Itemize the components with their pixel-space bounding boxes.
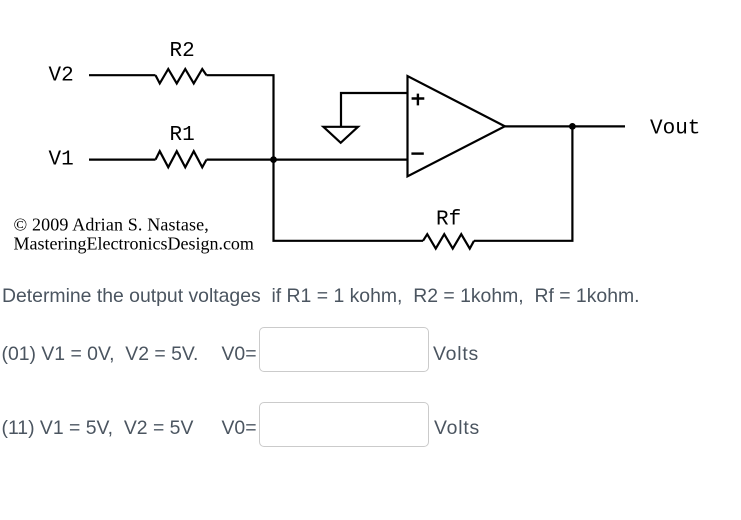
svg-text:R1: R1 (170, 124, 195, 147)
op-amp U1 (408, 76, 505, 176)
wire node to feedback bottom (274, 160, 424, 241)
wire output (505, 125, 625, 127)
answer row 1 input box (259, 327, 429, 372)
answer row 1 label (2, 345, 199, 364)
wire V2 input (89, 74, 156, 76)
op-amp minus pin marker (411, 152, 423, 154)
answer row 2 label (2, 419, 194, 438)
wire V1 input (89, 159, 156, 161)
svg-text:V1: V1 (49, 148, 74, 171)
wire non-inverting input to ground (341, 93, 408, 127)
output node junction dot (569, 123, 576, 130)
answer row 2 V0= (222, 419, 257, 438)
answer row 2 Volts (434, 419, 480, 438)
svg-text:MasteringElectronicsDesign.com: MasteringElectronicsDesign.com (14, 234, 254, 254)
svg-text:V2: V2 (49, 65, 74, 88)
svg-text:© 2009 Adrian S. Nastase,: © 2009 Adrian S. Nastase, (14, 215, 209, 235)
resistor R1 (156, 151, 207, 167)
question text (2, 287, 640, 306)
op-amp plus pin marker (412, 94, 425, 106)
wire R2 to node column (207, 75, 274, 159)
node A junction dot (270, 156, 277, 163)
ground (323, 127, 358, 143)
svg-text:R2: R2 (170, 40, 195, 63)
answer row 1 V0= (222, 345, 257, 364)
answer row 2 input box (259, 402, 429, 447)
answer row 1 Volts (433, 345, 479, 364)
svg-text:Rf: Rf (436, 209, 461, 232)
resistor R2 (156, 69, 207, 83)
wire R1 to inverting input (207, 159, 408, 161)
wire output to feedback (474, 126, 572, 240)
resistor Rf (423, 234, 474, 248)
svg-text:Vout: Vout (650, 118, 700, 141)
